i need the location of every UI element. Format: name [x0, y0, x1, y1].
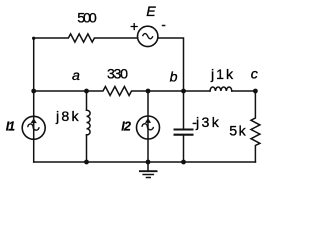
svg-text:5 k: 5 k — [229, 124, 246, 140]
svg-text:j 8 k: j 8 k — [55, 109, 80, 125]
svg-text:+: + — [130, 19, 138, 35]
svg-text:j 1 k: j 1 k — [210, 67, 234, 83]
svg-text:c: c — [251, 67, 258, 83]
svg-text:500: 500 — [77, 10, 97, 26]
svg-text:I1: I1 — [6, 120, 15, 134]
svg-text:E: E — [146, 4, 156, 20]
svg-text:330: 330 — [107, 67, 128, 83]
svg-text:-j 3 k: -j 3 k — [192, 115, 220, 131]
svg-text:I2: I2 — [121, 119, 131, 133]
svg-text:a: a — [72, 68, 80, 84]
svg-text:b: b — [170, 69, 178, 85]
